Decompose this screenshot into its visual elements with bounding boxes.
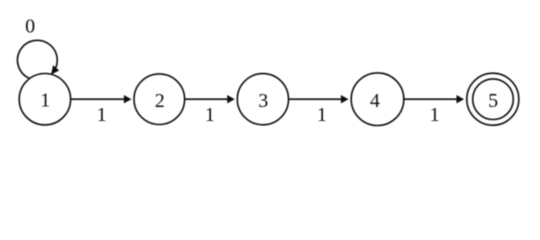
svg-text:4: 4 [370,90,380,112]
svg-text:1: 1 [430,104,440,126]
svg-text:1: 1 [205,104,215,126]
svg-text:3: 3 [258,90,268,112]
svg-text:1: 1 [317,104,327,126]
svg-text:5: 5 [488,90,498,112]
svg-text:2: 2 [155,90,165,112]
svg-text:0: 0 [25,16,35,38]
svg-text:1: 1 [40,89,50,111]
svg-text:1: 1 [97,104,107,126]
